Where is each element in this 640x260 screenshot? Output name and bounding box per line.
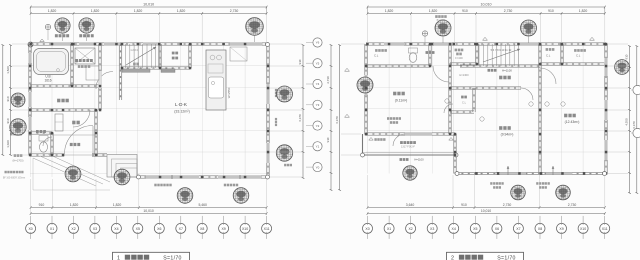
svg-text:10,010: 10,010: [143, 3, 154, 7]
svg-text:Y1: Y1: [316, 145, 320, 149]
svg-text:2,730: 2,730: [503, 203, 512, 207]
svg-text:1,820: 1,820: [91, 9, 100, 13]
svg-text:2,730: 2,730: [568, 203, 577, 207]
svg-text:(9.11m²): (9.11m²): [395, 99, 408, 103]
svg-text:X4: X4: [452, 227, 456, 231]
svg-text:910: 910: [462, 9, 468, 13]
svg-text:C.L: C.L: [462, 101, 467, 105]
svg-text:X10: X10: [580, 227, 586, 231]
svg-text:(9.94m²): (9.94m²): [501, 133, 514, 137]
svg-text:X7: X7: [516, 227, 520, 231]
svg-text:(33.12m²): (33.12m²): [174, 110, 190, 114]
svg-text:X6: X6: [157, 227, 161, 231]
svg-text:10,010: 10,010: [481, 3, 492, 7]
svg-text:6,370: 6,370: [335, 116, 339, 124]
svg-text:5,460: 5,460: [198, 203, 207, 207]
svg-text:2,730: 2,730: [326, 76, 330, 84]
svg-text:X3: X3: [93, 227, 97, 231]
svg-text:3,640: 3,640: [406, 203, 415, 207]
svg-text:X0: X0: [28, 227, 32, 231]
svg-text:S=1/70: S=1/70: [163, 256, 181, 260]
svg-text:X11: X11: [602, 227, 608, 231]
svg-text:2,730: 2,730: [230, 9, 239, 13]
svg-text:W=2550: W=2550: [227, 87, 231, 98]
svg-text:910: 910: [298, 59, 302, 64]
svg-text:1,820: 1,820: [48, 9, 57, 13]
svg-text:C.L: C.L: [576, 54, 581, 58]
svg-text:2: 2: [451, 256, 454, 260]
svg-text:H=1300: H=1300: [459, 73, 469, 77]
svg-text:1,820: 1,820: [113, 203, 122, 207]
svg-text:910: 910: [461, 203, 467, 207]
svg-text:X8: X8: [538, 227, 542, 231]
svg-text:910: 910: [326, 137, 330, 142]
svg-text:X10: X10: [242, 227, 248, 231]
svg-text:1,020: 1,020: [6, 140, 10, 148]
svg-text:1,820: 1,820: [177, 9, 186, 13]
svg-text:X2: X2: [408, 227, 412, 231]
svg-text:(12.43m²): (12.43m²): [565, 120, 580, 124]
svg-text:X2: X2: [71, 227, 75, 231]
svg-text:6,370: 6,370: [298, 114, 302, 122]
svg-text:H=1100: H=1100: [502, 69, 512, 73]
svg-text:S=1/70: S=1/70: [497, 256, 515, 260]
svg-text:4,550: 4,550: [625, 118, 629, 126]
svg-text:H=1100: H=1100: [414, 158, 424, 162]
svg-text:(H=1700): (H=1700): [13, 159, 24, 163]
svg-text:910: 910: [6, 96, 10, 101]
svg-text:910: 910: [625, 54, 629, 59]
svg-text:X1: X1: [50, 227, 54, 231]
svg-text:Y0: Y0: [316, 165, 320, 169]
svg-text:1,820: 1,820: [6, 66, 10, 74]
svg-text:X0: X0: [365, 227, 369, 231]
svg-text:5 6 7 8 9 10 11 12: 5 6 7 8 9 10 11 12: [491, 48, 512, 52]
svg-text:10,010: 10,010: [143, 209, 153, 213]
svg-text:1,820: 1,820: [429, 9, 438, 13]
svg-text:1616: 1616: [44, 78, 51, 82]
svg-text:1,820: 1,820: [70, 203, 79, 207]
svg-text:X9: X9: [221, 227, 225, 231]
svg-text:Y4: Y4: [316, 82, 320, 86]
svg-text:X3: X3: [430, 227, 434, 231]
svg-text:1,820: 1,820: [134, 9, 143, 13]
svg-text:F=400: F=400: [455, 56, 463, 60]
svg-text:X6: X6: [495, 227, 499, 231]
svg-text:Y3: Y3: [316, 103, 320, 107]
svg-text:X9: X9: [559, 227, 563, 231]
svg-text:X4: X4: [114, 227, 118, 231]
svg-text:X8: X8: [200, 227, 204, 231]
svg-text:910: 910: [39, 203, 45, 207]
svg-text:1 2 3 4: 1 2 3 4: [130, 49, 138, 52]
svg-text:Y5: Y5: [316, 62, 320, 66]
svg-text:6,370: 6,370: [632, 121, 636, 129]
svg-text:1317 FIX2-F: 1317 FIX2-F: [401, 146, 415, 149]
svg-text:Y6: Y6: [316, 41, 320, 45]
svg-text:L·D·K: L·D·K: [175, 102, 188, 107]
svg-text:X7: X7: [179, 227, 183, 231]
svg-text:1,820: 1,820: [579, 9, 588, 13]
svg-text:X11: X11: [264, 227, 270, 231]
svg-text:B=1800: B=1800: [437, 19, 446, 22]
svg-text:C.L: C.L: [546, 54, 551, 58]
svg-text:X5: X5: [473, 227, 477, 231]
svg-text:910: 910: [548, 9, 554, 13]
svg-text:C.L: C.L: [374, 54, 379, 58]
svg-text:Y2: Y2: [316, 124, 320, 128]
svg-text:10,010: 10,010: [481, 209, 491, 213]
svg-text:2,730: 2,730: [504, 9, 513, 13]
svg-text:1: 1: [117, 256, 120, 260]
svg-text:X1: X1: [387, 227, 391, 231]
svg-text:BF 165-60DR 105mm: BF 165-60DR 105mm: [3, 178, 25, 180]
svg-text:1,820: 1,820: [385, 9, 394, 13]
svg-text:910: 910: [6, 118, 10, 123]
svg-text:X5: X5: [136, 227, 140, 231]
